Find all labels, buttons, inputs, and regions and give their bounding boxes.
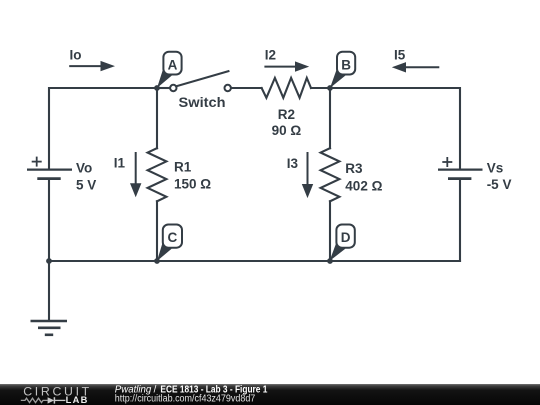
wire: R3 bottom lead [329, 201, 331, 261]
svg-text:402 Ω: 402 Ω [345, 178, 382, 193]
current arrow I5 [392, 48, 440, 73]
node D flag box [330, 225, 355, 262]
svg-text:D: D [341, 230, 351, 245]
svg-text:R3: R3 [345, 161, 363, 176]
voltage source V1 plus sign [32, 157, 42, 167]
switch SW1 blade [176, 71, 228, 86]
wire: ground stub [48, 261, 50, 320]
current arrow I3 [287, 152, 313, 198]
footer CircuitLab logo wordmark [21, 384, 90, 405]
wire: R3 top lead [329, 88, 331, 148]
current arrow I2 [264, 48, 309, 72]
junction dot at node D [327, 258, 333, 264]
wire: bottom horizontal C-D rail [49, 260, 460, 262]
svg-text:Vo: Vo [76, 160, 92, 175]
resistor R2 zigzag [262, 78, 311, 98]
node A flag box [157, 52, 182, 88]
resistor R3 zigzag [321, 148, 340, 201]
voltage source V2 Vs battery plates [438, 170, 483, 179]
svg-text:Switch: Switch [179, 94, 226, 110]
svg-text:http://circuitlab.com/cf43z479: http://circuitlab.com/cf43z479vd8d7 [115, 394, 256, 405]
svg-text:Io: Io [70, 48, 82, 63]
label Vo value [76, 160, 96, 192]
wire: right column lower [459, 180, 461, 261]
svg-text:R2: R2 [278, 107, 295, 122]
svg-text:R1: R1 [174, 160, 192, 175]
wire: top-left horizontal and left column upper [49, 88, 157, 168]
wire: R1 top lead [156, 88, 158, 148]
ground symbol [31, 321, 68, 335]
label R1 value [174, 160, 211, 192]
voltage source V2 plus sign [442, 157, 452, 167]
svg-text:I3: I3 [287, 156, 299, 171]
svg-text:-5 V: -5 V [487, 177, 512, 192]
wire: node A to switch pole [157, 87, 170, 89]
svg-text:90 Ω: 90 Ω [272, 123, 302, 138]
label R3 value [345, 161, 382, 193]
svg-text:LAB: LAB [66, 395, 88, 405]
wire: node B to right column and right column upper [330, 88, 460, 168]
svg-text:150 Ω: 150 Ω [174, 176, 211, 191]
wire: R2 to node B [311, 87, 330, 89]
footer bar [0, 384, 540, 405]
svg-text:C: C [168, 230, 178, 245]
svg-text:5 V: 5 V [76, 177, 96, 192]
wire: left column lower [48, 180, 50, 261]
wire: switch throw to R2 [231, 87, 262, 89]
node C flag box [157, 225, 182, 262]
label Vs value [487, 160, 512, 192]
footer logo resistor-diode doodle [21, 397, 66, 403]
svg-text:A: A [168, 57, 178, 72]
junction dot ground rail left [46, 258, 52, 264]
voltage source V1 Vo battery plates [27, 170, 72, 179]
junction dot at node B [327, 85, 333, 91]
svg-text:B: B [341, 57, 351, 72]
svg-text:I5: I5 [394, 48, 406, 63]
label R2 value [272, 107, 302, 138]
junction dot at node C [154, 258, 160, 264]
switch SW1 throw contact circle [225, 85, 231, 91]
current arrow Io [69, 48, 115, 72]
switch SW1 pole contact circle [170, 85, 176, 91]
junction dot at node A [154, 85, 160, 91]
node B flag box [330, 52, 355, 88]
svg-text:I2: I2 [265, 48, 276, 63]
svg-text:I1: I1 [114, 155, 126, 170]
current arrow I1 [114, 152, 142, 197]
wire: R1 bottom lead [156, 201, 158, 261]
svg-text:Vs: Vs [487, 160, 504, 175]
resistor R1 zigzag [148, 148, 167, 201]
